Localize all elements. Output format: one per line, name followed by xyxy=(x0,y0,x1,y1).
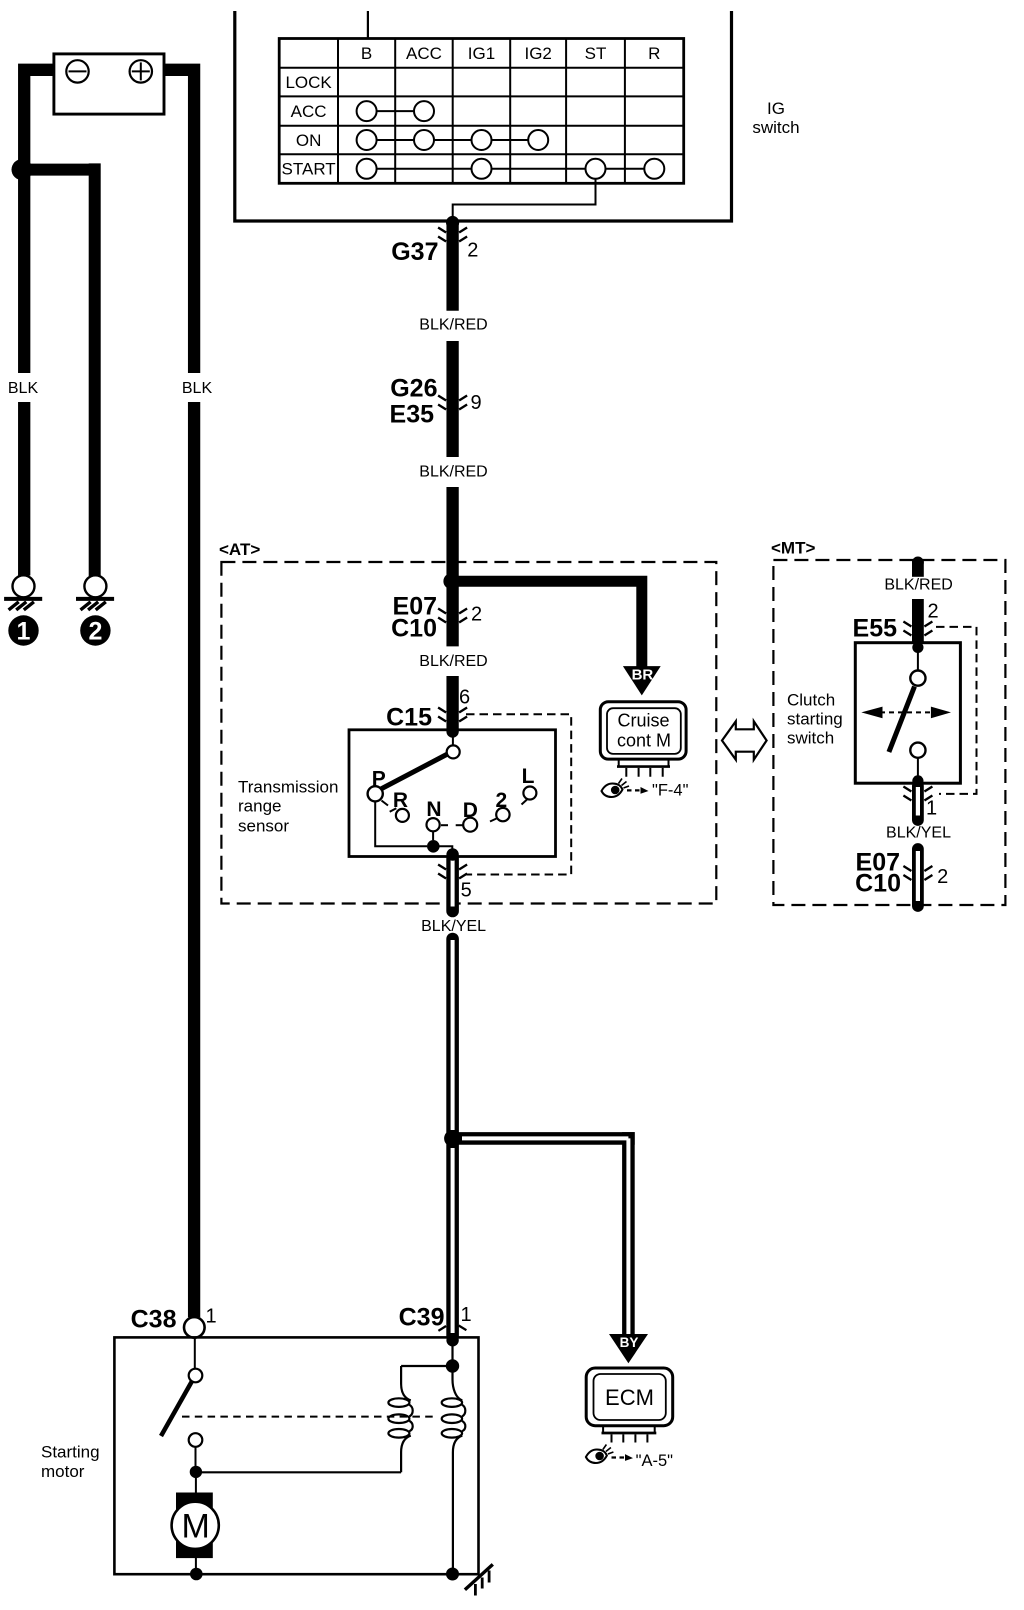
wire BLK/YEL hollow (long segment) xyxy=(446,939,459,1133)
svg-text:sensor: sensor xyxy=(238,816,289,835)
wire from contact P to output node xyxy=(375,801,427,846)
relay coil right xyxy=(453,1366,463,1400)
svg-text:IG: IG xyxy=(767,99,785,118)
svg-text:C10: C10 xyxy=(855,870,901,898)
svg-text:E55: E55 xyxy=(853,615,898,643)
svg-text:LOCK: LOCK xyxy=(285,73,332,92)
svg-text:C10: C10 xyxy=(391,615,437,643)
wire BLK/RED into clutch switch xyxy=(912,599,924,645)
svg-text:2: 2 xyxy=(496,789,508,812)
wire BLK/RED (MT top) xyxy=(912,557,924,569)
contact D xyxy=(463,818,477,832)
wire hollow down to C39 xyxy=(446,1144,459,1337)
svg-text:BLK/YEL: BLK/YEL xyxy=(421,918,486,935)
wire BLK/RED from IG switch (segment 1) xyxy=(446,223,458,311)
ECM pins xyxy=(612,1434,648,1442)
contact L xyxy=(523,787,536,800)
wire branch to cruise control module xyxy=(453,576,642,667)
svg-text:1: 1 xyxy=(926,798,937,820)
node wire entry xyxy=(912,642,923,653)
svg-text:BY: BY xyxy=(620,1335,639,1350)
ECM module xyxy=(586,1368,673,1426)
wire lower contact to box edge xyxy=(917,758,919,781)
clutch starting switch box xyxy=(855,643,960,784)
wire ground 2 branch xyxy=(18,163,101,576)
node junction to ECM branch xyxy=(444,1130,461,1147)
AT dashed enclosure xyxy=(221,562,716,904)
svg-text:M: M xyxy=(182,1508,210,1546)
relay coil left xyxy=(401,1366,411,1400)
cruise module pins xyxy=(626,768,662,777)
svg-text:C39: C39 xyxy=(399,1304,445,1332)
wire BLK to C38 xyxy=(188,402,200,1317)
svg-text:START: START xyxy=(282,160,336,179)
connector C15 dashed boundary xyxy=(466,714,571,874)
connector pin 1 hash xyxy=(903,787,932,801)
svg-text:Transmission: Transmission xyxy=(238,777,338,796)
cruise module pedestal xyxy=(619,759,669,766)
ECM pedestal xyxy=(603,1426,655,1432)
ground 2 xyxy=(76,575,114,610)
node junction (BLK/RED branch) xyxy=(443,573,459,589)
svg-text:P: P xyxy=(372,767,386,790)
wire cap C39 entry xyxy=(446,1334,458,1346)
svg-text:N: N xyxy=(426,798,441,821)
contact P xyxy=(368,786,383,801)
svg-text:switch: switch xyxy=(752,118,799,137)
relay actuation dashed link xyxy=(182,1416,438,1418)
relay contact feed from C38 xyxy=(194,1338,196,1369)
svg-text:2: 2 xyxy=(467,240,478,262)
wire BLK/YEL hollow (segment 2) xyxy=(912,849,924,906)
ON row contact link xyxy=(367,139,539,141)
svg-text:G26: G26 xyxy=(390,375,437,403)
svg-text:switch: switch xyxy=(787,729,834,748)
wire to left coil xyxy=(401,1365,452,1367)
svg-text:BLK: BLK xyxy=(8,380,39,397)
AT/MT equivalence arrow xyxy=(722,721,767,759)
node ground rail (motor) xyxy=(190,1568,203,1581)
ACC row contact circles xyxy=(357,101,377,121)
svg-text:1: 1 xyxy=(17,617,31,645)
svg-text:R: R xyxy=(648,44,660,63)
battery positive terminal xyxy=(130,60,152,82)
node relay coil junction xyxy=(446,1359,459,1372)
clutch switch arm xyxy=(889,687,915,753)
connector E55 hash xyxy=(903,622,932,636)
svg-text:L: L xyxy=(522,765,535,788)
svg-text:D: D xyxy=(463,799,478,822)
node ground rail (coil) xyxy=(446,1568,459,1581)
transmission range sensor box xyxy=(349,730,556,857)
starting motor box xyxy=(114,1337,478,1574)
wire cap at sensor exit xyxy=(446,848,458,860)
eye symbol (ECM) xyxy=(586,1445,614,1464)
chassis ground symbol (bottom right) xyxy=(465,1564,493,1589)
connector G26/E35 hash xyxy=(438,396,467,410)
svg-text:BLK/RED: BLK/RED xyxy=(419,464,487,481)
wire battery negative lead (left) xyxy=(18,64,56,373)
svg-text:"F-4": "F-4" xyxy=(652,782,689,800)
battery negative terminal xyxy=(66,60,88,82)
svg-text:ACC: ACC xyxy=(291,102,327,121)
svg-text:BLK/RED: BLK/RED xyxy=(419,653,487,670)
MT dashed enclosure xyxy=(773,560,1005,905)
relay upper contact xyxy=(189,1369,203,1383)
svg-text:1: 1 xyxy=(205,1306,216,1328)
motor M xyxy=(176,1493,213,1559)
svg-text:IG1: IG1 xyxy=(468,44,495,63)
contact R xyxy=(396,809,409,822)
sensor wiper arm xyxy=(379,754,449,791)
svg-text:2: 2 xyxy=(471,604,482,626)
connector G37 hash xyxy=(438,228,467,242)
node junction on IG box edge xyxy=(446,216,459,229)
wire from ST contact to box edge xyxy=(453,179,596,221)
START row contact circles xyxy=(357,159,377,179)
svg-text:G37: G37 xyxy=(391,238,438,266)
clutch switch lower contact xyxy=(910,743,925,758)
svg-text:BLK/RED: BLK/RED xyxy=(884,577,952,594)
svg-text:cont M: cont M xyxy=(617,730,671,750)
connector E07/C10 hash (MT) xyxy=(903,866,932,880)
svg-text:9: 9 xyxy=(470,392,481,414)
wire motor to ground rail xyxy=(195,1558,197,1573)
svg-text:"A-5": "A-5" xyxy=(636,1452,674,1470)
svg-text:ON: ON xyxy=(296,131,322,150)
connector C39 hash xyxy=(438,1326,466,1331)
svg-text:2: 2 xyxy=(927,601,938,623)
svg-text:C15: C15 xyxy=(386,704,432,732)
dashed see arrow (cruise) xyxy=(627,787,649,794)
svg-text:BLK/YEL: BLK/YEL xyxy=(886,825,951,842)
svg-text:ST: ST xyxy=(585,44,607,63)
svg-text:<AT>: <AT> xyxy=(219,540,260,559)
wire BLK/RED (segment 3, into AT box) xyxy=(446,487,458,646)
svg-text:BLK/RED: BLK/RED xyxy=(419,317,487,334)
svg-text:motor: motor xyxy=(41,1462,85,1481)
svg-text:IG2: IG2 xyxy=(524,44,551,63)
wire BLK/RED into sensor xyxy=(446,676,458,730)
relay switch arm xyxy=(161,1382,192,1437)
wire from contact N to output node xyxy=(432,831,434,840)
svg-text:2: 2 xyxy=(937,866,948,888)
START row contact link xyxy=(367,168,655,170)
dashed see arrow (ECM) xyxy=(612,1454,634,1461)
eye symbol (cruise) xyxy=(602,779,630,798)
cruise cont M module xyxy=(600,702,686,759)
wire battery positive lead (right) xyxy=(164,64,200,373)
svg-text:Starting: Starting xyxy=(41,1443,100,1462)
wire BLK/RED (segment 2) xyxy=(446,341,458,457)
svg-text:ACC: ACC xyxy=(406,44,442,63)
connector C15 hash xyxy=(438,708,467,722)
arrow BY to ECM xyxy=(609,1334,648,1363)
IG switch contact table grid xyxy=(279,39,684,184)
svg-text:range: range xyxy=(238,797,281,816)
node junction on negative lead xyxy=(12,159,33,180)
contact N xyxy=(427,818,440,831)
svg-text:2: 2 xyxy=(88,617,102,645)
svg-text:5: 5 xyxy=(461,880,472,902)
wire hollow branch to ECM xyxy=(452,1132,634,1145)
wire battery negative lower segment xyxy=(18,402,30,576)
wire BLK/YEL hollow (below switch) xyxy=(912,786,924,820)
svg-text:B: B xyxy=(361,44,372,63)
wire BLK/YEL hollow from sensor xyxy=(446,859,459,912)
connector E55 dashed boundary xyxy=(936,627,977,794)
ACC row contact link xyxy=(367,110,424,112)
clutch switch upper contact xyxy=(910,671,925,686)
svg-text:Clutch: Clutch xyxy=(787,691,835,710)
svg-text:BR: BR xyxy=(632,667,654,684)
sensor common contact xyxy=(447,745,460,758)
svg-text:Cruise: Cruise xyxy=(617,710,669,730)
ON row contact circles xyxy=(357,130,377,150)
node wire exit xyxy=(912,775,923,786)
wire cap into sensor xyxy=(446,725,458,737)
connector C38 circle xyxy=(184,1317,205,1338)
svg-text:ECM: ECM xyxy=(605,1385,654,1410)
ground 1 xyxy=(4,575,42,610)
svg-text:1: 1 xyxy=(460,1304,471,1326)
connector pin 5 hash xyxy=(438,865,467,879)
switch travel dashed arrow xyxy=(880,711,933,713)
node motor junction xyxy=(190,1466,202,1478)
battery xyxy=(54,54,164,114)
svg-text:<MT>: <MT> xyxy=(771,539,815,558)
svg-text:C38: C38 xyxy=(131,1306,177,1334)
svg-text:BLK: BLK xyxy=(182,380,213,397)
svg-text:starting: starting xyxy=(787,710,843,729)
wire B terminal lead (top) xyxy=(367,11,369,39)
arrow BR to cruise module xyxy=(623,666,661,695)
node sensor output junction xyxy=(427,840,440,853)
contact 2 xyxy=(496,808,509,821)
IG switch enclosure box xyxy=(235,11,732,221)
wire node to motor xyxy=(195,1472,197,1493)
relay lower contact xyxy=(189,1433,203,1447)
svg-text:6: 6 xyxy=(459,687,470,709)
connector E07/C10 hash xyxy=(438,609,467,623)
wire node to coil bottom xyxy=(196,1471,401,1473)
svg-text:E35: E35 xyxy=(390,401,435,429)
